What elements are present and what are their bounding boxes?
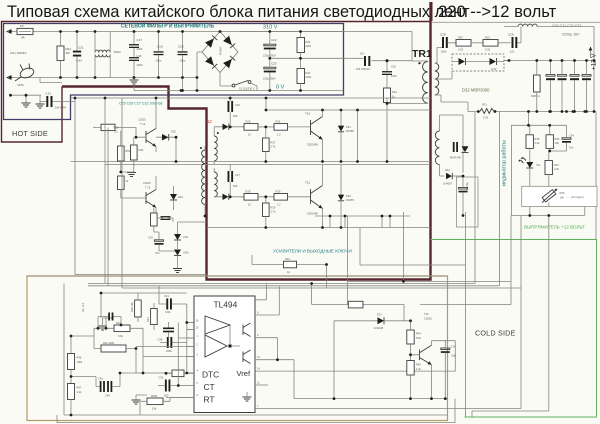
svg-text:C36: C36	[148, 236, 153, 240]
mains filter box (purple)	[4, 24, 344, 120]
transistor T16	[420, 345, 432, 365]
transformer TR1 primary	[423, 62, 428, 104]
capacitor C19	[154, 51, 164, 55]
output choke L1	[518, 24, 537, 26]
svg-text:C46: C46	[105, 394, 110, 398]
svg-text:C25: C25	[391, 65, 396, 69]
svg-text:DTC: DTC	[202, 370, 219, 380]
node	[386, 59, 389, 62]
capacitor C20	[178, 51, 188, 55]
svg-text:R482: R482	[151, 394, 158, 398]
resistor R23	[297, 69, 305, 84]
svg-text:10k: 10k	[555, 141, 560, 145]
resistor R41	[151, 309, 158, 325]
capacitor C33	[582, 75, 591, 77]
svg-text:R47: R47	[77, 386, 82, 390]
capacitor C28	[442, 37, 444, 48]
svg-text:C29: C29	[508, 33, 514, 37]
ground	[127, 173, 136, 177]
svg-text:T 12: T 12	[140, 122, 146, 126]
svg-text:C21: C21	[78, 46, 84, 50]
diode D21	[338, 126, 344, 132]
svg-text:104 400V: 104 400V	[55, 106, 66, 110]
diode D20	[162, 134, 169, 141]
resistor R24	[384, 88, 391, 103]
resistor R29	[274, 194, 288, 201]
svg-text:TL494: TL494	[214, 300, 238, 310]
svg-text:RS607: RS607	[219, 46, 223, 55]
resistor R21	[57, 46, 64, 61]
svg-text:100n: 100n	[391, 74, 397, 78]
resistor R49 (feedback line)	[348, 301, 363, 308]
resistor R42	[114, 325, 130, 332]
transformer TR1 secondary	[435, 63, 439, 95]
wire N (neutral)	[7, 78, 197, 91]
resistor R32	[456, 40, 471, 47]
internal transistor Q1	[243, 323, 251, 337]
output cap bus	[504, 60, 594, 62]
capacitor C26 + zener	[228, 101, 230, 112]
svg-text:R41: R41	[146, 317, 150, 322]
capacitor C25	[382, 71, 392, 75]
svg-text:C28: C28	[440, 33, 446, 37]
resistor R46	[68, 354, 75, 370]
svg-text:2.7k: 2.7k	[271, 210, 277, 214]
svg-text:2SD2499: 2SD2499	[307, 212, 318, 216]
right pins	[255, 284, 267, 300]
svg-text:C1815: C1815	[424, 317, 432, 321]
resistor R34	[284, 261, 297, 268]
feedback wire from pot	[472, 216, 549, 418]
svg-text:C21: C21	[46, 92, 52, 96]
svg-text:10k: 10k	[152, 407, 157, 411]
dual diode D32 (dashed box)	[452, 54, 504, 71]
svg-text:220 -->12 вольт: 220 -->12 вольт	[438, 2, 557, 21]
T2 secondary upper	[214, 136, 217, 161]
resistor R40	[101, 345, 126, 352]
svg-text:R23: R23	[306, 71, 311, 75]
capacitor C31	[558, 75, 567, 77]
snubber transistor T13	[146, 190, 156, 208]
hot side boundary box (maroon thin part)	[2, 22, 431, 143]
resistor R22	[297, 38, 305, 53]
T2 secondary lower	[214, 172, 217, 197]
svg-text:D23: D23	[178, 195, 183, 199]
svg-text:C23: C23	[271, 62, 277, 66]
bridge rectifier B1	[202, 32, 238, 73]
svg-text:C41: C41	[164, 294, 169, 298]
capacitor C35b	[165, 380, 167, 392]
svg-text:310 V: 310 V	[263, 25, 278, 31]
svg-text:10n: 10n	[360, 52, 365, 56]
resistor R37	[545, 161, 552, 175]
svg-text:RT: RT	[204, 395, 215, 405]
zener D300	[163, 328, 174, 330]
svg-text:C30 C31 C32 C33: C30 C31 C32 C33	[552, 24, 581, 28]
svg-text:TR21: TR21	[114, 50, 122, 54]
svg-text:2200: 2200	[137, 63, 143, 67]
svg-text:100n: 100n	[165, 310, 171, 314]
svg-text:R26: R26	[276, 120, 281, 124]
svg-text:CT: CT	[204, 382, 215, 392]
svg-text:Типовая схема китайского блока: Типовая схема китайского блока питания с…	[7, 3, 470, 21]
mid rails	[71, 162, 431, 165]
error amp 1	[205, 316, 230, 334]
underline right of title	[432, 21, 600, 23]
wire 310V to TR1	[344, 32, 413, 62]
indicator bottom bus	[511, 203, 584, 216]
resistor R39	[135, 300, 142, 317]
svg-text:1.2k: 1.2k	[416, 367, 422, 371]
capacitor C17	[129, 44, 139, 48]
ground	[39, 102, 41, 105]
svg-text:C34: C34	[569, 134, 574, 138]
svg-text:ВЫПРЯМИТЕЛЬ +12 ВОЛЬТ: ВЫПРЯМИТЕЛЬ +12 ВОЛЬТ	[524, 225, 585, 230]
svg-text:C35: C35	[159, 376, 164, 380]
resistor R26	[274, 124, 288, 131]
svg-text:R35: R35	[535, 137, 540, 141]
svg-text:R44: R44	[416, 332, 421, 336]
svg-text:T12: T12	[205, 119, 213, 124]
resistor R35	[526, 135, 533, 149]
wires to IC left pins	[136, 304, 194, 386]
svg-text:R51: R51	[126, 149, 131, 153]
svg-text:Vref: Vref	[237, 369, 252, 378]
resistor R27	[263, 138, 270, 152]
wire mid to C24	[301, 58, 422, 61]
svg-text:T 13: T 13	[145, 186, 151, 190]
svg-text:70n: 70n	[155, 251, 160, 255]
switch S1	[232, 84, 235, 87]
capacitor C24	[364, 56, 366, 66]
capacitor C32	[570, 75, 579, 77]
svg-text:C35: C35	[451, 345, 456, 349]
capacitor C21a (3n63)	[73, 51, 81, 53]
capacitor C45 C46	[100, 381, 102, 392]
zener D31	[174, 234, 181, 240]
svg-text:100n: 100n	[180, 59, 186, 63]
ground	[173, 269, 182, 273]
svg-text:1N4007: 1N4007	[443, 182, 453, 186]
svg-text:C1815: C1815	[143, 181, 151, 185]
svg-text:D20: D20	[171, 130, 176, 134]
svg-text:220k: 220k	[306, 75, 312, 79]
resistor R55	[151, 213, 158, 226]
aux winding TR1	[435, 131, 439, 165]
svg-text:2.2k: 2.2k	[535, 141, 541, 145]
capacitor C27 + zener lower	[228, 171, 230, 182]
svg-text:1.2k: 1.2k	[77, 390, 83, 394]
svg-text:220 v 50/60Hz: 220 v 50/60Hz	[10, 51, 27, 55]
wire under purple box	[71, 97, 431, 99]
capacitor C39	[161, 216, 171, 220]
svg-text:D37: D37	[377, 313, 382, 317]
resistor R47	[68, 384, 75, 400]
svg-text:2.2k: 2.2k	[554, 167, 560, 171]
top bus 310V	[266, 98, 431, 110]
svg-text:220k: 220k	[306, 44, 312, 48]
bottom outer wire	[57, 399, 455, 423]
svg-text:C26: C26	[235, 103, 240, 107]
svg-text:FR155: FR155	[346, 198, 354, 202]
pin 6 RT	[166, 397, 194, 399]
svg-text:2200: 2200	[166, 349, 172, 353]
+12V arrow	[590, 49, 592, 59]
svg-text:100n: 100n	[156, 59, 162, 63]
resistor R28	[244, 194, 258, 201]
svg-text:R39: R39	[560, 191, 565, 195]
svg-text:2200: 2200	[137, 47, 143, 51]
resistor R51	[118, 146, 125, 161]
rectifier +12V box (green)	[431, 240, 597, 418]
svg-text:R27: R27	[271, 141, 276, 145]
svg-text:0.33: 0.33	[458, 48, 464, 52]
svg-text:5.6k: 5.6k	[118, 334, 124, 338]
resistor R33	[483, 40, 498, 47]
bottom bus	[294, 398, 448, 400]
svg-text:C1815: C1815	[138, 118, 146, 122]
svg-text:D 32: D 32	[491, 67, 497, 71]
ground inside IC	[243, 397, 252, 401]
ground top	[98, 326, 107, 330]
svg-text:MUR 460: MUR 460	[450, 156, 462, 160]
svg-text:СЕТЬ: СЕТЬ	[17, 83, 24, 87]
0V rail	[134, 90, 344, 92]
svg-text:C38: C38	[158, 338, 163, 342]
svg-text:220µ 250V: 220µ 250V	[263, 54, 276, 58]
svg-text:S1 115/230 V: S1 115/230 V	[239, 87, 255, 91]
svg-text:R45: R45	[416, 363, 421, 367]
resistor R45	[407, 361, 414, 376]
diode D22	[338, 195, 344, 201]
mid node wire	[270, 57, 301, 59]
resistor R44	[407, 330, 414, 344]
diode base upper	[223, 124, 229, 130]
diode D37	[378, 317, 385, 324]
diode D23	[170, 194, 177, 200]
svg-text:3n63: 3n63	[76, 59, 82, 63]
lower bus	[207, 227, 431, 229]
wire L (live) top	[7, 31, 344, 33]
capacitor C41	[166, 299, 168, 310]
trim pot box	[522, 186, 597, 206]
choke TR21	[95, 50, 110, 57]
resistor R48	[147, 398, 163, 405]
svg-text:C18: C18	[137, 54, 142, 58]
resistor R36	[546, 135, 553, 149]
driver transformer T2 primary	[202, 150, 205, 204]
svg-text:R22: R22	[306, 40, 311, 44]
svg-text:509: 509	[233, 114, 238, 118]
svg-text:D30: D30	[184, 251, 189, 255]
power transistor T11	[311, 186, 323, 209]
svg-text:D31: D31	[184, 235, 189, 239]
snubber transistor T12	[146, 129, 156, 147]
svg-text:COLD SIDE: COLD SIDE	[475, 329, 516, 338]
svg-text:0 V: 0 V	[276, 85, 285, 91]
fuse F2	[17, 28, 33, 34]
svg-text:FR155: FR155	[346, 129, 354, 133]
svg-text:VL1: VL1	[536, 163, 541, 167]
wire gnd row	[9, 78, 62, 102]
capacitor C21	[46, 96, 48, 107]
resistor R30	[263, 203, 270, 217]
zener D30	[174, 250, 181, 256]
capacitor C37	[459, 188, 468, 190]
svg-text:D22: D22	[346, 194, 351, 198]
svg-text:T10: T10	[305, 112, 311, 116]
pin 5 CT	[178, 385, 194, 387]
diode base lower	[223, 194, 229, 200]
indicator top wire	[511, 112, 548, 216]
svg-text:D21: D21	[346, 125, 351, 129]
resistor R50	[101, 124, 115, 130]
resistor R25	[244, 124, 258, 131]
svg-text:R36: R36	[555, 137, 560, 141]
diode D33 cluster	[453, 142, 455, 152]
svg-text:2200µ 16V: 2200µ 16V	[562, 33, 580, 37]
svg-text:1.2: 1.2	[277, 203, 281, 207]
resistor R38	[534, 75, 541, 92]
svg-text:2SD2499: 2SD2499	[307, 143, 318, 147]
svg-text:R32: R32	[458, 36, 463, 40]
+12 distribution bus	[468, 111, 596, 113]
svg-text:R38 0.1: R38 0.1	[531, 94, 541, 98]
svg-text:2.7k: 2.7k	[271, 145, 277, 149]
svg-text:← +12 подстр: ← +12 подстр	[567, 195, 584, 199]
svg-text:R29: R29	[276, 190, 281, 194]
svg-text:50µ: 50µ	[452, 354, 457, 358]
svg-text:1.2: 1.2	[277, 133, 281, 137]
capacitor C38	[167, 337, 169, 348]
svg-text:R40 120k: R40 120k	[103, 341, 115, 345]
svg-text:0.33: 0.33	[485, 48, 491, 52]
svg-text:ОС +12: ОС +12	[81, 302, 85, 312]
svg-text:T11: T11	[305, 181, 310, 185]
svg-text:R33: R33	[485, 36, 490, 40]
svg-text:5.6k: 5.6k	[416, 336, 422, 340]
error amp 2	[205, 335, 227, 357]
310V rail right portion	[240, 31, 344, 33]
svg-text:R50: R50	[114, 126, 119, 130]
capacitor C30	[546, 75, 555, 77]
svg-text:R24: R24	[392, 90, 397, 94]
svg-text:6.8k: 6.8k	[139, 148, 145, 152]
svg-text:C17: C17	[137, 38, 143, 42]
left pins	[187, 323, 194, 357]
hot side boundary (maroon thick isolation path)	[62, 2, 431, 280]
ground	[25, 95, 27, 103]
svg-text:500: 500	[164, 394, 169, 398]
svg-text:СЕТЕВОЙ ФИЛЬТР И ВЫПРЯМИТЕЛЬ: СЕТЕВОЙ ФИЛЬТР И ВЫПРЯМИТЕЛЬ	[121, 22, 214, 30]
svg-text:102: 102	[510, 50, 515, 54]
svg-text:1M: 1M	[66, 51, 71, 55]
svg-text:C22: C22	[271, 38, 277, 42]
svg-text:F2: F2	[20, 24, 24, 28]
svg-text:1N4148: 1N4148	[374, 326, 384, 330]
potentiometer R39	[542, 190, 556, 202]
resistor R31 (zigzag)	[480, 109, 494, 114]
svg-text:509: 509	[233, 184, 238, 188]
svg-text:индикатор работы: индикатор работы	[502, 140, 508, 186]
svg-text:1000: 1000	[441, 50, 447, 54]
IC TL494 box	[194, 296, 255, 413]
svg-text:C19: C19	[157, 45, 163, 49]
resistor R37b	[172, 370, 184, 377]
svg-text:C45: C45	[98, 377, 103, 381]
resistor R53	[118, 176, 125, 190]
pin 4 DTC	[120, 372, 194, 374]
svg-text:C27: C27	[235, 173, 240, 177]
inner bus	[315, 216, 410, 228]
capacitor C35	[441, 348, 450, 350]
wire column	[357, 110, 359, 162]
svg-text:10n: 10n	[569, 146, 574, 150]
capacitor C18	[129, 57, 139, 61]
capacitor C44	[108, 313, 110, 321]
svg-text:T16: T16	[424, 312, 429, 316]
title separator line	[431, 2, 433, 21]
svg-text:R30: R30	[271, 206, 276, 210]
power transistor T10	[311, 117, 323, 140]
svg-text:D32 MBR3060: D32 MBR3060	[462, 88, 490, 93]
svg-text:C20: C20	[178, 45, 184, 49]
diode D34	[446, 173, 452, 180]
internal transistor Q2	[243, 350, 251, 364]
svg-text:10k: 10k	[560, 196, 565, 200]
capacitor C22	[264, 44, 276, 46]
svg-text:R39 10k: R39 10k	[130, 302, 134, 312]
svg-text:D34: D34	[445, 168, 450, 172]
svg-text:R46: R46	[77, 356, 82, 360]
svg-text:TR1: TR1	[412, 48, 432, 60]
capacitor C36	[155, 240, 164, 242]
svg-text:R37: R37	[554, 163, 559, 167]
svg-text:УСИЛИТЕЛИ И ВЫХОДНЫЕ КЛЮЧИ: УСИЛИТЕЛИ И ВЫХОДНЫЕ КЛЮЧИ	[273, 249, 352, 254]
capacitor C29	[512, 37, 514, 48]
svg-text:R31: R31	[482, 103, 487, 107]
svg-text:104 250VAC: 104 250VAC	[356, 67, 371, 71]
svg-text:HOT SIDE: HOT SIDE	[12, 129, 48, 138]
svg-text:4A: 4A	[21, 36, 25, 40]
svg-text:R28: R28	[246, 190, 251, 194]
capacitor C23	[264, 67, 276, 69]
cold side box (tan)	[27, 276, 448, 421]
svg-text:100k: 100k	[77, 360, 83, 364]
svg-text:R34: R34	[285, 257, 290, 261]
svg-text:R25: R25	[246, 120, 251, 124]
svg-text:220µ 250V: 220µ 250V	[263, 77, 276, 81]
capacitor C34	[562, 138, 571, 140]
LED VL1	[526, 162, 533, 168]
svg-text:0.33: 0.33	[483, 116, 489, 120]
ground mid	[132, 400, 141, 404]
svg-text:C37 50µ: C37 50µ	[465, 182, 469, 192]
mains plug СЕТЬ	[15, 64, 35, 82]
resistor R52	[131, 145, 138, 160]
aux regulator box	[457, 177, 479, 227]
